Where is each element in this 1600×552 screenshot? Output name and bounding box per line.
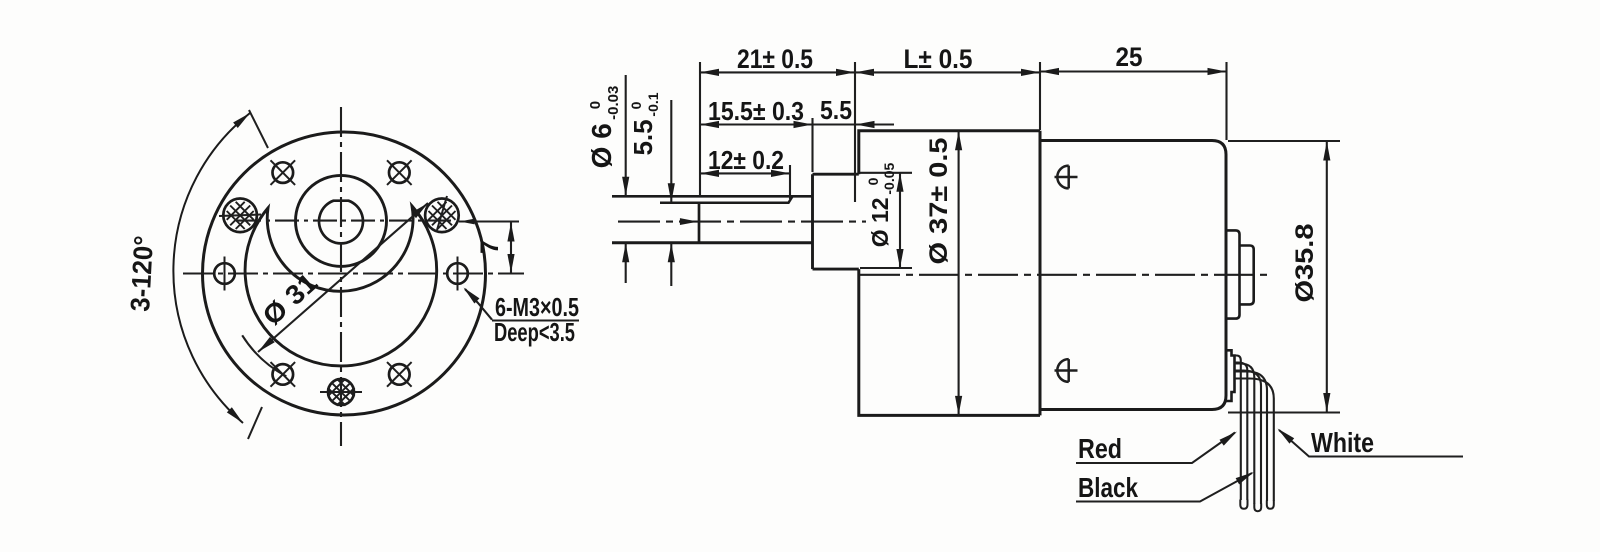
arc end tick top xyxy=(249,110,268,148)
output boss xyxy=(813,174,859,269)
dim L+-0.5 xyxy=(855,69,874,76)
M3 hole at 0deg xyxy=(447,257,468,291)
svg-text:Ø35.8: Ø35.8 xyxy=(1291,223,1319,302)
label underline xyxy=(492,320,579,322)
dim 15.5+-0.3 and 5.5 xyxy=(700,123,894,125)
svg-text:5.50-0.1: 5.50-0.1 xyxy=(628,92,661,155)
leader 6-M3 xyxy=(465,289,492,320)
shaft centerline xyxy=(618,221,866,223)
dim dia37 xyxy=(958,131,960,416)
extension line gearbox face xyxy=(854,62,856,202)
hatched hole at 150deg xyxy=(219,199,261,233)
wire red edges xyxy=(1235,356,1241,501)
screw symbol bottom xyxy=(1055,359,1078,382)
brush housing step 2 xyxy=(1240,246,1254,305)
svg-text:Black: Black xyxy=(1078,472,1138,503)
outer flange circle xyxy=(203,132,486,415)
svg-text:L± 0.5: L± 0.5 xyxy=(904,44,973,74)
bolt circle arc segment xyxy=(242,335,286,376)
M3 hole at 60deg xyxy=(387,160,412,185)
svg-text:Red: Red xyxy=(1078,433,1122,464)
wire red terminal tip xyxy=(1240,500,1247,509)
7 dim extension line xyxy=(459,220,519,222)
M3 hole at 300deg xyxy=(387,362,412,387)
shaft hole (D-flat on top) xyxy=(319,201,363,244)
shaft bottom line xyxy=(612,241,813,244)
wire black terminal tip xyxy=(1254,504,1261,512)
shaft flat line with jog xyxy=(660,196,793,203)
brush housing step 1 xyxy=(1226,230,1240,318)
dim dia12 xyxy=(860,173,912,268)
svg-text:Ø 37± 0.5: Ø 37± 0.5 xyxy=(925,137,953,264)
shaft end face xyxy=(698,203,701,243)
hatched hole at 30deg xyxy=(425,196,459,232)
M3 hole at 120deg xyxy=(271,160,296,185)
M3 hole at 240deg xyxy=(271,362,296,387)
vertical centerline xyxy=(340,107,342,446)
motor body xyxy=(1040,141,1226,410)
arc end arrowhead bottom xyxy=(227,407,246,425)
arc end arrowhead top xyxy=(233,110,252,128)
boss horizontal centerline xyxy=(237,220,452,222)
dim 21+-0.5 xyxy=(700,71,855,73)
svg-text:5.5: 5.5 xyxy=(820,95,852,125)
dim 5.5-0.1 vertical xyxy=(670,100,672,286)
screw symbol top xyxy=(1055,166,1078,189)
svg-text:White: White xyxy=(1311,427,1374,458)
centerline arrow at shaft end xyxy=(680,218,698,225)
wire white edges xyxy=(1235,372,1268,502)
svg-text:Deep<3.5: Deep<3.5 xyxy=(494,317,575,347)
svg-text:25: 25 xyxy=(1116,42,1143,72)
wire white terminal tip xyxy=(1267,501,1274,509)
shaft top line xyxy=(612,195,813,198)
wire black edges xyxy=(1235,364,1255,505)
svg-text:12± 0.2: 12± 0.2 xyxy=(708,145,784,175)
motor centerline xyxy=(860,274,1272,276)
shaft boss circle xyxy=(296,175,387,266)
3-120 dimension arc xyxy=(173,113,250,423)
extension line shaft end xyxy=(699,62,701,196)
extension line motor rear xyxy=(1225,62,1227,140)
horizontal centerline flange xyxy=(183,272,524,274)
extension line boss face xyxy=(811,118,813,172)
terminal bracket xyxy=(1226,350,1235,401)
svg-text:7: 7 xyxy=(476,240,504,254)
svg-text:15.5± 0.3: 15.5± 0.3 xyxy=(708,96,804,126)
extension tick flat end xyxy=(789,165,791,199)
dia31 dimension line xyxy=(258,203,428,352)
M3 hole at 180deg xyxy=(214,257,235,291)
arc end tick bottom xyxy=(248,407,262,439)
dim 12+-0.2 xyxy=(700,172,790,174)
7 dim line xyxy=(510,222,512,274)
svg-text:3-120°: 3-120° xyxy=(125,235,159,312)
svg-text:21± 0.5: 21± 0.5 xyxy=(737,44,813,74)
gearbox crescent land xyxy=(245,206,437,366)
dim 25 xyxy=(1040,70,1227,72)
dim dia6 vertical xyxy=(625,75,627,283)
gearbox body xyxy=(859,131,1040,416)
dim dia35.8 xyxy=(1228,141,1340,413)
extension line gearbox/motor junction xyxy=(1039,62,1041,130)
hatched hole at 270deg xyxy=(320,379,362,406)
